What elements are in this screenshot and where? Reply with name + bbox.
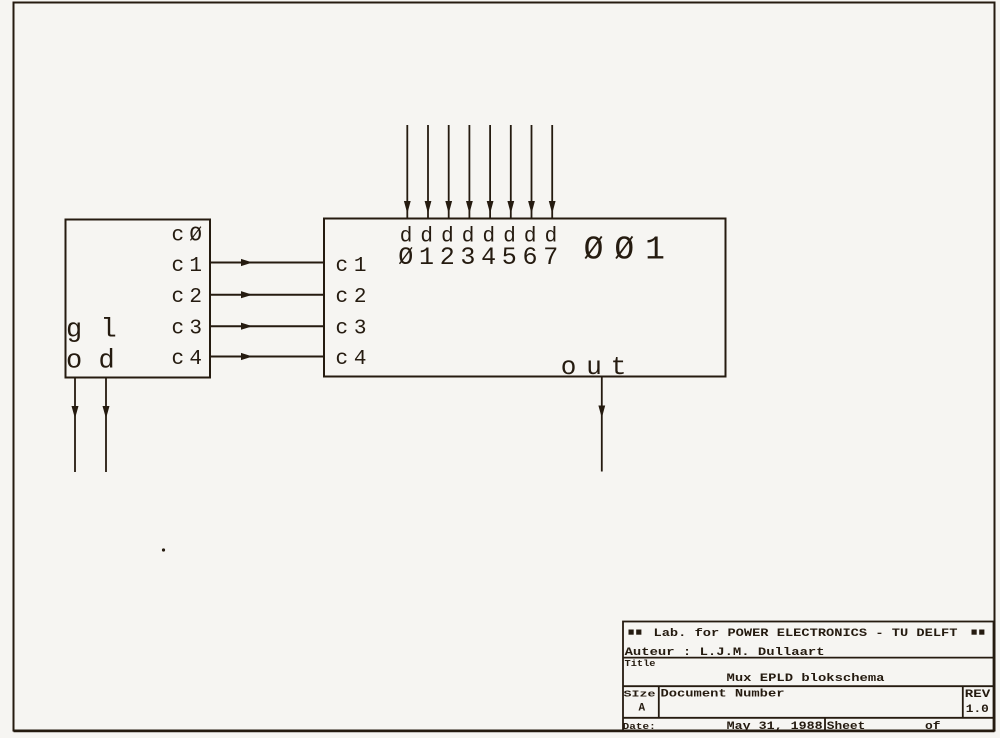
svg-text:Lab. for POWER ELECTRONICS - T: Lab. for POWER ELECTRONICS - TU DELFT — [654, 628, 958, 640]
pin label o d — [66, 347, 115, 377]
wire c4 — [211, 356, 325, 358]
wire c3 — [211, 325, 325, 327]
output wire l/d (down from U1) — [105, 378, 107, 473]
output wire g/o (down from U1) — [74, 378, 76, 473]
pin label out — [561, 352, 627, 382]
svg-text:Document Number: Document Number — [661, 689, 785, 701]
svg-text:1: 1 — [419, 243, 434, 272]
title block: lab name — [629, 628, 985, 640]
svg-text:1.0: 1.0 — [966, 704, 989, 716]
stray dot — [162, 548, 165, 551]
svg-text:2: 2 — [440, 243, 455, 272]
svg-text:Ø: Ø — [398, 243, 413, 272]
svg-text:3: 3 — [460, 243, 475, 272]
output wire out — [601, 377, 603, 472]
svg-text:t: t — [611, 352, 627, 382]
svg-text:l: l — [101, 316, 117, 346]
input wire d1 — [427, 125, 429, 219]
wire c2 — [211, 294, 325, 296]
svg-text:d: d — [99, 347, 115, 377]
input wire d3 — [468, 125, 470, 219]
svg-text:7: 7 — [543, 243, 558, 272]
value label 001 — [584, 232, 665, 269]
svg-text:Ø: Ø — [584, 232, 604, 269]
input wire d7 — [551, 125, 553, 219]
svg-text:REV: REV — [965, 689, 991, 701]
svg-text:A: A — [639, 703, 646, 715]
svg-text:o: o — [561, 352, 577, 382]
svg-text:SIze: SIze — [624, 689, 656, 700]
block U1 (control/select generator, pins g l / o d) — [66, 220, 211, 378]
svg-text:6: 6 — [522, 243, 537, 272]
svg-text:Title: Title — [625, 658, 656, 669]
svg-text:5: 5 — [502, 243, 517, 272]
svg-text:u: u — [586, 352, 602, 382]
svg-text:o: o — [66, 347, 82, 377]
title block frame — [623, 622, 994, 731]
svg-text:g: g — [66, 316, 82, 346]
wire c1 — [211, 262, 325, 264]
svg-text:Ø: Ø — [614, 232, 634, 269]
input wire d4 — [489, 125, 491, 219]
input wire d2 — [448, 125, 450, 219]
mux block U2 — [324, 219, 726, 377]
input wire d6 — [531, 125, 533, 219]
svg-text:Mux EPLD blokschema: Mux EPLD blokschema — [727, 673, 886, 685]
svg-text:4: 4 — [481, 243, 496, 272]
input wire d0 — [406, 125, 408, 219]
svg-text:1: 1 — [645, 232, 665, 269]
pin labels d0..d7 — [400, 225, 558, 248]
page bottom border (thick) — [14, 730, 995, 733]
pin label g l — [66, 316, 117, 346]
input wire d5 — [510, 125, 512, 219]
